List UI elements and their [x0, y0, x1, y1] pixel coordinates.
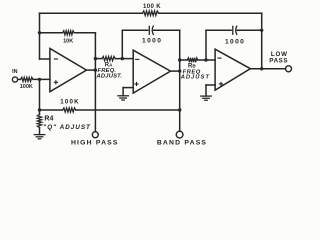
op-amp U1	[50, 49, 87, 92]
pin minus U1	[54, 58, 58, 60]
resistor 100K input	[21, 77, 34, 81]
wire U1 non-inverting input	[33, 78, 50, 80]
terminal BAND PASS	[176, 131, 183, 138]
wire R4 bottom stub	[39, 128, 41, 135]
wire bottom Q feedback right to band-pass rail	[76, 109, 180, 111]
wire U3 feedback box top left	[206, 29, 231, 31]
resistor 100K Q feedback	[63, 108, 76, 112]
terminal IN	[12, 77, 17, 82]
wire 10K feedback line left	[40, 32, 63, 34]
pin plus U3	[219, 82, 223, 86]
wire summing node vertical down to Q network	[39, 79, 41, 110]
svg-text:1000: 1000	[225, 38, 245, 45]
pin plus U1	[54, 80, 58, 84]
wire R4 top stub	[39, 110, 41, 115]
pin minus U2	[135, 58, 139, 60]
wire U1 output	[87, 69, 96, 71]
svg-text:BAND PASS: BAND PASS	[157, 139, 207, 146]
wire top feedback line left segment	[40, 12, 143, 14]
node junction summing input	[38, 78, 41, 81]
wire bottom Q feedback left	[40, 109, 63, 111]
node junction top-left 10K tee	[38, 31, 41, 34]
wire U2 feedback box left vertical	[121, 30, 123, 58]
wire high-pass vertical rail	[94, 33, 96, 132]
node junction RA tee on HP rail	[94, 57, 97, 60]
svg-text:"Q" ADJUST: "Q" ADJUST	[43, 124, 91, 131]
pin plus U2	[134, 82, 138, 86]
capacitor 1000 U3 feedback	[233, 26, 237, 34]
wire U2 ground drop	[122, 88, 124, 96]
svg-text:R4: R4	[44, 115, 53, 122]
svg-text:1000: 1000	[142, 38, 162, 45]
wire U2 non-inverting input	[123, 87, 133, 89]
resistor 10K feedback	[63, 31, 75, 35]
svg-text:10K: 10K	[63, 39, 73, 45]
svg-text:100K: 100K	[20, 84, 33, 90]
resistor 100K top feedback	[143, 11, 159, 16]
node junction U2 output	[178, 69, 181, 72]
svg-text:PASS: PASS	[269, 57, 288, 64]
ground U3	[200, 96, 212, 100]
op-amp U3	[215, 49, 250, 90]
node junction R4 tee	[38, 108, 41, 111]
terminal LOW PASS	[286, 66, 292, 72]
svg-text:HIGH PASS: HIGH PASS	[71, 140, 119, 147]
node junction Q feedback to BP rail	[178, 108, 181, 111]
svg-text:100 K: 100 K	[143, 4, 161, 10]
pin minus U3	[217, 57, 221, 59]
wire RB left stub	[180, 59, 188, 61]
svg-text:IN: IN	[12, 69, 17, 75]
wire U3 non-inverting input	[206, 84, 215, 86]
resistor RA freq adjust	[102, 56, 115, 60]
node junction U3 output	[260, 67, 263, 70]
node junction U1 output	[94, 68, 97, 71]
wire right vertical from top line to U3 output	[261, 13, 263, 69]
svg-text:ADJUST.: ADJUST.	[96, 73, 123, 79]
wire IN stub	[18, 78, 21, 80]
wire U3 ground drop	[205, 85, 207, 96]
node junction U2 cap box tee	[121, 57, 124, 60]
wire RA to U2 inverting input	[115, 58, 133, 60]
ground R4	[34, 135, 46, 139]
wire U2 feedback box top right	[154, 29, 180, 31]
wire RA left stub	[95, 58, 102, 60]
resistor RB freq adjust	[187, 58, 198, 62]
wire left vertical from top line to U1 inverting input	[39, 13, 41, 59]
op-amp U2	[133, 50, 170, 93]
wire U2 feedback box top left	[122, 29, 147, 31]
resistor R4 Q adjust	[37, 115, 41, 128]
wire 10K feedback line right	[74, 32, 95, 34]
wire U2 output	[171, 70, 180, 72]
node junction U3 cap box tee	[204, 58, 207, 61]
node junction RB tee on BP rail	[178, 58, 181, 61]
ground U2	[117, 96, 129, 100]
wire U3 feedback box left vertical	[205, 30, 207, 60]
svg-text:ADJUST: ADJUST	[180, 74, 210, 80]
wire U1 inverting input	[40, 58, 50, 60]
wire U3 output to low-pass terminal	[250, 68, 285, 70]
wire top feedback line right segment	[159, 12, 262, 14]
wire band-pass vertical rail	[179, 30, 181, 131]
terminal HIGH PASS	[92, 132, 98, 138]
capacitor 1000 U2 feedback	[149, 26, 153, 34]
wire RB to U3 inverting input	[198, 59, 215, 61]
node junction top line to U3 cap box	[260, 29, 263, 32]
svg-text:100K: 100K	[60, 99, 80, 106]
wire U3 feedback box top right	[237, 29, 262, 31]
